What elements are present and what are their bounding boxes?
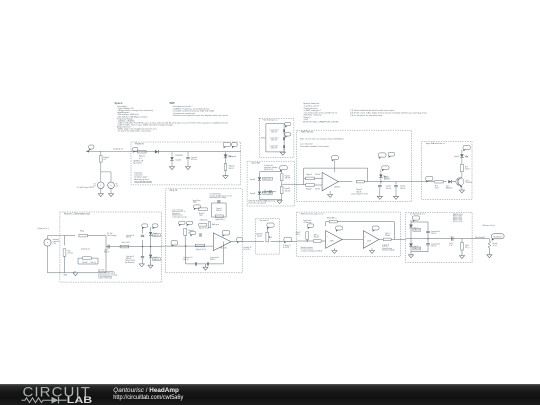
- svg-text:LAB: LAB: [67, 395, 93, 405]
- svg-text:http://circuitlab.com/cwt5a6y: http://circuitlab.com/cwt5a6y: [113, 394, 184, 401]
- svg-text:Qantourisc / HeadAmp: Qantourisc / HeadAmp: [113, 387, 179, 394]
